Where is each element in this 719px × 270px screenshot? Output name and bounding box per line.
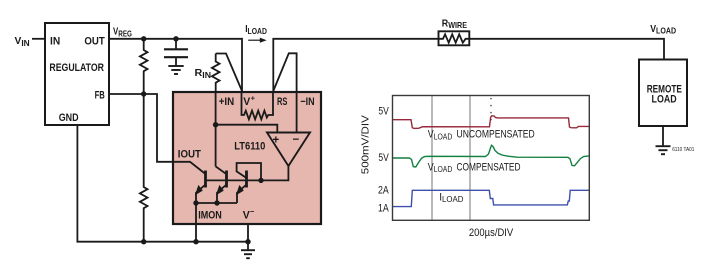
resistor R2 lower feedback divider <box>140 94 148 242</box>
svg-text:VLOAD: VLOAD <box>428 129 453 142</box>
svg-text:1A: 1A <box>378 203 389 215</box>
wire RS to -IN (diagonal) <box>273 53 296 92</box>
svg-text:+: + <box>273 135 280 147</box>
wire IMON to bottom rail <box>195 203 197 242</box>
node ILOAD label <box>245 23 267 36</box>
node junction dot emitter rail left <box>193 200 198 205</box>
wire emitter rail <box>196 202 237 204</box>
svg-text:+IN: +IN <box>219 96 235 108</box>
ILOAD arrow <box>248 38 267 43</box>
svg-text:−: − <box>293 134 300 146</box>
scope dotted cursor <box>490 99 492 122</box>
ground remote load <box>656 146 671 154</box>
scope gridline 1 <box>431 96 433 221</box>
svg-text:COMPENSATED: COMPENSATED <box>457 161 521 173</box>
svg-text:RS: RS <box>277 96 287 108</box>
transistor Q2 base bar <box>225 171 228 188</box>
ground main <box>241 242 255 259</box>
svg-text:IMON: IMON <box>198 209 222 221</box>
wire RIN top to V+ node (diagonal) <box>216 54 242 92</box>
label 6110 TA01 <box>672 147 694 153</box>
wire RS drop and rail to RWIRE <box>273 39 438 92</box>
trace ILOAD (blue) <box>393 190 589 206</box>
wire -IN pin to op-amp - input <box>296 92 298 133</box>
wire T3 collector loop <box>237 163 261 180</box>
transistor Q3 emitter <box>237 185 247 204</box>
resistor RWIRE box <box>439 31 470 45</box>
remote load box <box>639 60 687 127</box>
trace VLOAD compensated (green) <box>393 145 589 167</box>
svg-text:VIN: VIN <box>15 35 30 48</box>
svg-text:VLOAD: VLOAD <box>428 161 453 174</box>
svg-text:LOAD: LOAD <box>652 93 677 105</box>
wire FB to IOUT <box>109 94 173 162</box>
svg-text:LT6110: LT6110 <box>234 140 265 152</box>
scope box <box>393 96 590 221</box>
svg-text:ILOAD: ILOAD <box>439 191 463 204</box>
svg-text:+: + <box>251 94 256 103</box>
wire V- pin to ground <box>247 224 249 242</box>
node junction dot V- ground <box>245 239 250 244</box>
regulator U2 box <box>45 23 109 125</box>
transistor Q3 base bar <box>245 171 248 188</box>
wire RWIRE to VLOAD <box>469 39 664 60</box>
svg-text:500mV/DIV: 500mV/DIV <box>360 115 372 174</box>
node junction dot base rail <box>258 178 263 183</box>
wire regulator GND to bottom rail <box>77 125 143 242</box>
node junction dot FB <box>141 91 146 96</box>
svg-text:RIN: RIN <box>195 67 212 80</box>
transistor Q1 emitter <box>196 185 206 204</box>
svg-text:RWIRE: RWIRE <box>442 17 467 30</box>
op-amp U1a <box>267 133 310 167</box>
chip pin labels <box>178 94 315 222</box>
transistor Q2 emitter <box>217 185 227 204</box>
svg-text:5V: 5V <box>378 105 389 117</box>
resistor R1 upper feedback divider <box>140 39 148 94</box>
node junction dot emitter rail mid <box>214 200 219 205</box>
internal sense resistor V+ to RS <box>242 92 274 119</box>
capacitor C1 top plate <box>164 39 188 50</box>
svg-text:200µs/DIV: 200µs/DIV <box>469 227 514 239</box>
svg-text:UNCOMPENSATED: UNCOMPENSATED <box>457 129 535 141</box>
node VLOAD label <box>650 23 676 36</box>
wire IOUT into T1 collector <box>173 162 206 174</box>
node junction dot IMON bottom <box>193 239 198 244</box>
node VREG label <box>113 26 132 39</box>
svg-text:VLOAD: VLOAD <box>650 23 676 36</box>
wire +IN node to op-amp + input <box>216 125 278 133</box>
chip U1 LT6110 body <box>173 92 321 224</box>
scope labels <box>360 105 535 239</box>
node VIN label <box>15 35 30 48</box>
regulator pin labels <box>49 35 104 124</box>
svg-text:REGULATOR: REGULATOR <box>49 62 104 74</box>
svg-text:IN: IN <box>50 35 60 47</box>
wire op-amp output to base rail <box>206 166 289 180</box>
trace VLOAD uncompensated (red) <box>393 116 589 129</box>
scope plot <box>360 96 590 239</box>
svg-text:−: − <box>250 207 255 216</box>
svg-text:−IN: −IN <box>300 96 314 108</box>
svg-text:OUT: OUT <box>84 35 104 47</box>
scope gridline 2 <box>469 96 471 221</box>
wire VIN to regulator IN <box>32 38 45 40</box>
svg-text:6110 TA01: 6110 TA01 <box>672 147 694 153</box>
node junction dot VREG/R divider <box>141 36 146 41</box>
svg-text:VREG: VREG <box>113 26 132 39</box>
wire remote load to ground <box>662 126 664 146</box>
wire +IN node to T2 collector <box>216 166 227 174</box>
node junction dot +IN <box>213 122 218 127</box>
node junction dot bottom rail / R2 <box>141 239 146 244</box>
wire VREG rail from OUT to V+ drop <box>109 39 242 92</box>
svg-text:FB: FB <box>95 90 105 102</box>
capacitor C1 bottom plate <box>164 56 188 58</box>
wire +IN pin down to node <box>215 92 217 166</box>
resistor RWIRE label <box>442 17 467 30</box>
resistor RIN label <box>195 67 212 80</box>
resistor RIN <box>212 54 220 93</box>
ground for C1 <box>168 57 183 74</box>
svg-text:ILOAD: ILOAD <box>245 23 267 36</box>
wire bottom rail <box>144 241 248 243</box>
svg-text:IOUT: IOUT <box>178 148 201 160</box>
node junction dot VREG/cap <box>173 36 178 41</box>
svg-text:2A: 2A <box>378 184 389 196</box>
svg-text:GND: GND <box>59 112 79 124</box>
resistor RWIRE zigzag <box>439 34 470 42</box>
svg-text:5V: 5V <box>378 152 389 164</box>
transistor Q1 base bar <box>204 171 207 188</box>
